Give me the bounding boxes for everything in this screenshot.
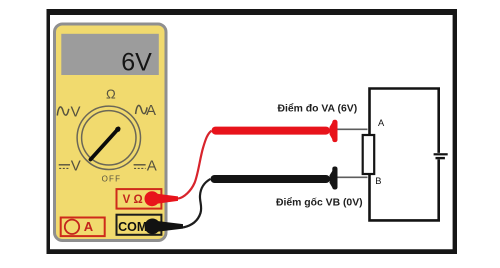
needle	[91, 129, 119, 160]
red plug	[145, 191, 179, 206]
svg-text:Ω: Ω	[106, 87, 116, 102]
svg-text:Điểm gốc VB (0V): Điểm gốc VB (0V)	[276, 197, 363, 209]
resistor R	[363, 135, 375, 174]
circuit loop wire	[370, 89, 439, 221]
DC current range label	[134, 158, 157, 175]
black probe handle	[211, 167, 338, 190]
svg-text:A: A	[147, 158, 157, 175]
svg-text:B: B	[375, 176, 381, 186]
svg-text:V: V	[71, 103, 81, 120]
svg-text:A: A	[146, 102, 156, 119]
svg-text:V: V	[71, 158, 81, 175]
battery B1	[434, 154, 448, 158]
multimeter body	[55, 24, 167, 241]
V-ohm jack box	[117, 189, 162, 209]
red probe handle	[212, 120, 338, 142]
black test lead wire	[183, 179, 211, 228]
display	[61, 34, 159, 75]
DC voltage range label	[59, 158, 81, 175]
current jack box	[61, 218, 105, 237]
current jack circle	[65, 220, 79, 234]
black plug	[145, 219, 183, 235]
svg-text:OFF: OFF	[102, 174, 122, 183]
red test lead wire	[178, 131, 212, 199]
dial knob	[82, 111, 136, 165]
dial outer ring	[77, 106, 140, 169]
red probe tip	[338, 128, 368, 130]
AC voltage range label	[57, 103, 80, 120]
AC current range label	[136, 102, 156, 119]
svg-text:COM: COM	[118, 220, 147, 234]
svg-text:6V: 6V	[121, 49, 152, 77]
black probe tip	[338, 176, 368, 178]
svg-text:A: A	[84, 219, 94, 234]
svg-text:A: A	[378, 118, 385, 128]
svg-text:Điểm đo VA (6V): Điểm đo VA (6V)	[278, 102, 358, 114]
svg-text:V Ω: V Ω	[123, 194, 143, 206]
COM jack box	[117, 215, 162, 235]
